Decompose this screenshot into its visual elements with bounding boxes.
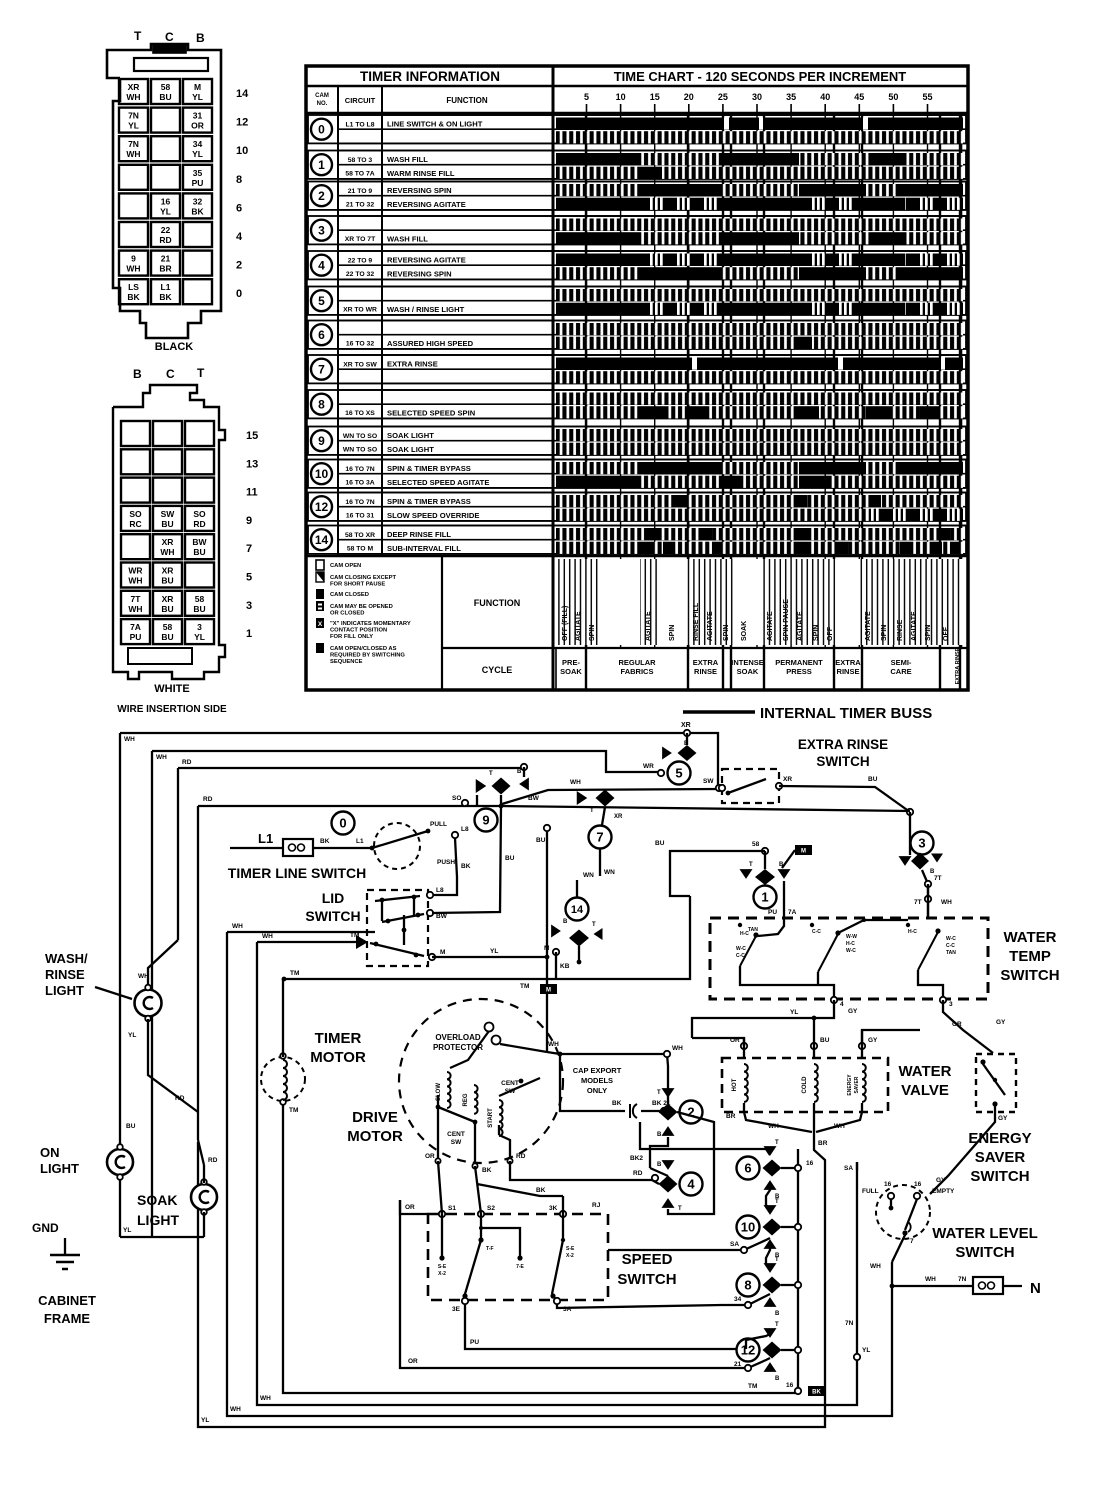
svg-text:BU: BU: [193, 604, 205, 614]
svg-text:AGITATE: AGITATE: [767, 611, 774, 641]
svg-text:12: 12: [236, 117, 248, 129]
svg-text:BW: BW: [528, 795, 540, 802]
svg-text:2: 2: [318, 189, 325, 203]
svg-text:PRESS: PRESS: [786, 667, 811, 676]
svg-text:12: 12: [741, 1343, 755, 1358]
svg-text:6: 6: [236, 202, 242, 214]
svg-text:3: 3: [918, 836, 925, 851]
svg-text:BLACK: BLACK: [155, 341, 194, 353]
svg-text:S1: S1: [448, 1205, 456, 1212]
svg-text:GY: GY: [936, 1177, 946, 1184]
svg-text:4: 4: [236, 231, 243, 243]
svg-text:16 TO 31: 16 TO 31: [346, 513, 374, 520]
svg-text:AGITATE: AGITATE: [911, 611, 918, 641]
svg-text:0: 0: [318, 123, 325, 137]
svg-text:BK: BK: [536, 1187, 546, 1194]
svg-text:16: 16: [884, 1181, 892, 1188]
svg-text:OFF (FILL): OFF (FILL): [562, 606, 569, 641]
svg-text:7A: 7A: [788, 909, 797, 916]
svg-text:8: 8: [318, 398, 325, 412]
svg-text:CONTACT POSITION: CONTACT POSITION: [330, 628, 387, 634]
svg-text:PERMANENT: PERMANENT: [775, 658, 823, 667]
svg-text:XR TO WR: XR TO WR: [343, 307, 377, 314]
svg-text:WN TO SO: WN TO SO: [343, 433, 377, 440]
svg-text:SOAK: SOAK: [560, 667, 582, 676]
svg-text:XR: XR: [783, 776, 792, 783]
svg-text:EXTRA: EXTRA: [693, 658, 719, 667]
svg-text:TIMER LINE SWITCH: TIMER LINE SWITCH: [228, 865, 366, 881]
svg-text:3K: 3K: [549, 1205, 558, 1212]
svg-text:CAM: CAM: [315, 93, 329, 99]
svg-text:WATER LEVEL: WATER LEVEL: [932, 1225, 1038, 1242]
svg-text:SWITCH: SWITCH: [955, 1244, 1014, 1261]
svg-text:WH: WH: [834, 1123, 845, 1130]
svg-text:XR TO 7T: XR TO 7T: [345, 236, 376, 243]
svg-text:21 TO 9: 21 TO 9: [348, 188, 373, 195]
svg-text:WH: WH: [126, 92, 140, 102]
svg-text:4: 4: [318, 259, 325, 273]
svg-text:KB: KB: [560, 963, 570, 970]
svg-text:SO: SO: [452, 795, 461, 802]
svg-text:CAM OPEN: CAM OPEN: [330, 563, 361, 569]
svg-text:AGITATE: AGITATE: [645, 611, 652, 641]
svg-text:3: 3: [949, 1001, 953, 1008]
svg-text:WASH FILL: WASH FILL: [387, 234, 428, 243]
svg-text:INTERNAL TIMER BUSS: INTERNAL TIMER BUSS: [760, 705, 932, 722]
svg-text:21: 21: [734, 1361, 742, 1368]
svg-text:WH: WH: [138, 973, 149, 980]
svg-text:SLOW SPEED OVERRIDE: SLOW SPEED OVERRIDE: [387, 511, 479, 520]
svg-text:WH: WH: [128, 604, 142, 614]
svg-text:T: T: [775, 1199, 779, 1205]
svg-text:34: 34: [734, 1296, 742, 1303]
svg-text:SPIN & TIMER BYPASS: SPIN & TIMER BYPASS: [387, 464, 471, 473]
svg-text:XR: XR: [128, 82, 140, 92]
svg-text:WH: WH: [232, 923, 243, 930]
svg-text:ENERGY: ENERGY: [847, 1074, 853, 1096]
svg-text:50: 50: [888, 92, 898, 102]
svg-text:RINSE: RINSE: [897, 619, 904, 641]
svg-text:58 TO 7A: 58 TO 7A: [345, 171, 374, 178]
svg-text:GY: GY: [998, 1115, 1008, 1122]
svg-text:CAM MAY BE OPENED: CAM MAY BE OPENED: [330, 604, 393, 610]
svg-text:T: T: [590, 808, 594, 814]
svg-text:WARM RINSE FILL: WARM RINSE FILL: [387, 169, 455, 178]
svg-text:TEMP: TEMP: [1009, 948, 1051, 965]
svg-text:MODELS: MODELS: [581, 1076, 613, 1085]
svg-text:5: 5: [675, 766, 682, 781]
svg-text:0: 0: [339, 816, 346, 831]
svg-text:ENERGY: ENERGY: [968, 1130, 1031, 1147]
svg-text:AGITATE: AGITATE: [797, 611, 804, 641]
svg-text:T: T: [775, 1140, 779, 1146]
svg-text:XR: XR: [162, 594, 174, 604]
svg-text:1: 1: [246, 628, 252, 640]
svg-text:TIME CHART - 120 SECONDS PER I: TIME CHART - 120 SECONDS PER INCREMENT: [614, 69, 907, 84]
svg-text:7N: 7N: [128, 139, 139, 149]
svg-text:8: 8: [744, 1278, 751, 1293]
svg-text:16 TO 3A: 16 TO 3A: [345, 480, 374, 487]
svg-text:XR: XR: [614, 814, 623, 820]
svg-text:SPEED: SPEED: [622, 1251, 673, 1268]
svg-text:LINE SWITCH & ON LIGHT: LINE SWITCH & ON LIGHT: [387, 120, 483, 129]
svg-text:21 TO 32: 21 TO 32: [346, 202, 374, 209]
svg-text:YL: YL: [201, 1417, 209, 1424]
svg-text:PU: PU: [130, 632, 142, 642]
svg-text:LID: LID: [322, 890, 345, 906]
svg-text:7A: 7A: [130, 622, 141, 632]
svg-text:WH: WH: [941, 899, 952, 906]
svg-text:DRIVE: DRIVE: [352, 1109, 398, 1126]
svg-text:SWITCH: SWITCH: [617, 1271, 676, 1288]
svg-text:OR: OR: [425, 1153, 435, 1160]
svg-text:L1: L1: [258, 831, 273, 846]
svg-text:4: 4: [687, 1177, 695, 1192]
svg-text:EXTRA RINSE: EXTRA RINSE: [955, 647, 961, 684]
svg-text:M: M: [194, 82, 201, 92]
svg-text:7: 7: [246, 543, 252, 555]
svg-text:PUSH: PUSH: [437, 859, 455, 866]
svg-text:WASH FILL: WASH FILL: [387, 155, 428, 164]
svg-text:0: 0: [236, 288, 242, 300]
svg-text:WATER: WATER: [1003, 929, 1056, 946]
svg-text:SUB-INTERVAL FILL: SUB-INTERVAL FILL: [387, 544, 461, 553]
svg-text:WIRE INSERTION SIDE: WIRE INSERTION SIDE: [117, 704, 227, 715]
svg-text:WHITE: WHITE: [154, 683, 189, 695]
svg-text:S2: S2: [487, 1205, 495, 1212]
svg-text:58 TO M: 58 TO M: [347, 546, 374, 553]
svg-text:BU: BU: [161, 632, 173, 642]
svg-text:BU: BU: [161, 604, 173, 614]
svg-text:SW: SW: [703, 778, 714, 785]
svg-text:FUNCTION: FUNCTION: [474, 598, 521, 608]
svg-text:X-2: X-2: [566, 1253, 574, 1259]
svg-text:7T: 7T: [934, 875, 942, 882]
svg-text:3E: 3E: [452, 1306, 461, 1313]
svg-text:OFF: OFF: [827, 626, 834, 641]
svg-text:XR: XR: [162, 537, 174, 547]
svg-text:OR: OR: [408, 1358, 418, 1365]
svg-text:WH: WH: [126, 149, 140, 159]
svg-text:BK: BK: [191, 206, 204, 216]
svg-text:6: 6: [744, 1161, 751, 1176]
svg-text:FOR FILL ONLY: FOR FILL ONLY: [330, 634, 373, 640]
svg-text:TM: TM: [520, 983, 529, 990]
svg-text:BU: BU: [193, 547, 205, 557]
svg-text:SPIN & TIMER BYPASS: SPIN & TIMER BYPASS: [387, 497, 471, 506]
svg-text:T: T: [489, 771, 493, 777]
svg-text:22 TO 9: 22 TO 9: [348, 258, 373, 265]
svg-text:WH: WH: [156, 754, 167, 761]
svg-text:GY: GY: [996, 1019, 1006, 1026]
svg-text:RD: RD: [516, 1153, 526, 1160]
svg-text:58 TO XR: 58 TO XR: [345, 532, 375, 539]
svg-text:EMPTY: EMPTY: [932, 1188, 955, 1195]
svg-text:B: B: [775, 1311, 780, 1317]
svg-text:AGITATE: AGITATE: [865, 611, 872, 641]
svg-text:CAM OPEN/CLOSED AS: CAM OPEN/CLOSED AS: [330, 646, 397, 652]
svg-text:SAVER: SAVER: [854, 1076, 860, 1093]
svg-text:PU: PU: [768, 909, 777, 916]
svg-text:C-C: C-C: [812, 929, 821, 935]
svg-text:16 TO 32: 16 TO 32: [346, 341, 374, 348]
svg-text:RD: RD: [193, 519, 205, 529]
svg-text:GY: GY: [848, 1008, 858, 1015]
svg-text:T: T: [775, 1257, 779, 1263]
svg-text:BU: BU: [655, 840, 665, 847]
svg-text:WH: WH: [768, 1123, 779, 1130]
svg-text:16: 16: [161, 196, 171, 206]
svg-text:35: 35: [786, 92, 796, 102]
svg-text:16: 16: [786, 1382, 794, 1389]
svg-text:RINSE: RINSE: [45, 967, 85, 982]
svg-text:W-C: W-C: [846, 948, 856, 954]
svg-text:30: 30: [752, 92, 762, 102]
svg-text:SA: SA: [844, 1165, 853, 1172]
svg-text:L8: L8: [436, 887, 444, 894]
svg-text:DEEP RINSE FILL: DEEP RINSE FILL: [387, 530, 451, 539]
svg-text:OR: OR: [405, 1204, 415, 1211]
svg-text:WH: WH: [230, 1406, 241, 1413]
svg-text:40: 40: [820, 92, 830, 102]
svg-text:RD: RD: [159, 235, 171, 245]
svg-text:WH: WH: [126, 264, 140, 274]
svg-text:SA: SA: [730, 1241, 739, 1248]
svg-text:MOTOR: MOTOR: [347, 1128, 403, 1145]
svg-text:W-C: W-C: [946, 936, 956, 942]
svg-text:RD: RD: [182, 759, 192, 766]
svg-text:C: C: [165, 30, 174, 44]
svg-text:COLD: COLD: [802, 1076, 808, 1094]
svg-text:WN: WN: [583, 872, 594, 879]
svg-text:SELECTED SPEED SPIN: SELECTED SPEED SPIN: [387, 408, 475, 417]
svg-text:10: 10: [616, 92, 626, 102]
svg-text:SOAK LIGHT: SOAK LIGHT: [387, 445, 434, 454]
svg-text:CAM CLOSED: CAM CLOSED: [330, 592, 369, 598]
svg-text:RD: RD: [633, 1170, 643, 1177]
svg-text:BW: BW: [192, 537, 207, 547]
svg-text:CAM CLOSING EXCEPT: CAM CLOSING EXCEPT: [330, 575, 396, 581]
svg-text:SPIN: SPIN: [669, 625, 676, 641]
svg-text:YL: YL: [862, 1347, 870, 1354]
svg-text:58 TO 3: 58 TO 3: [348, 157, 373, 164]
svg-text:SEMI-: SEMI-: [891, 658, 912, 667]
svg-text:BK: BK: [320, 838, 330, 845]
svg-text:CAP EXPORT: CAP EXPORT: [573, 1066, 622, 1075]
svg-text:S-E: S-E: [438, 1264, 447, 1270]
svg-text:FRAME: FRAME: [44, 1311, 91, 1326]
svg-text:SO: SO: [193, 509, 206, 519]
svg-text:34: 34: [193, 139, 203, 149]
svg-text:WH: WH: [124, 736, 135, 743]
svg-text:M: M: [801, 849, 806, 855]
svg-text:ON: ON: [40, 1145, 60, 1160]
svg-text:T: T: [592, 922, 596, 928]
svg-text:15: 15: [246, 430, 258, 442]
svg-text:REVERSING SPIN: REVERSING SPIN: [387, 269, 452, 278]
svg-text:SPIN: SPIN: [723, 625, 730, 641]
svg-text:4: 4: [840, 1001, 844, 1008]
svg-text:7T: 7T: [914, 899, 922, 906]
svg-text:16: 16: [914, 1181, 922, 1188]
svg-text:LIGHT: LIGHT: [137, 1212, 179, 1228]
svg-text:SAVER: SAVER: [975, 1149, 1026, 1166]
svg-text:7T: 7T: [131, 594, 142, 604]
svg-text:14: 14: [571, 904, 584, 916]
svg-text:XR: XR: [162, 566, 174, 576]
svg-text:L1: L1: [356, 838, 364, 845]
svg-text:B: B: [657, 1132, 662, 1138]
svg-text:GY: GY: [868, 1037, 878, 1044]
svg-text:5: 5: [318, 294, 325, 308]
svg-text:OR CLOSED: OR CLOSED: [330, 611, 364, 617]
svg-text:YL: YL: [192, 149, 203, 159]
svg-text:BK: BK: [612, 1100, 622, 1107]
svg-text:SPIN: SPIN: [589, 625, 596, 641]
svg-text:B: B: [133, 367, 142, 381]
svg-text:SOAK: SOAK: [741, 621, 748, 641]
svg-text:31: 31: [193, 111, 203, 121]
svg-text:YL: YL: [790, 1009, 798, 1016]
svg-text:OVERLOAD: OVERLOAD: [435, 1033, 481, 1042]
svg-text:SOAK: SOAK: [737, 667, 759, 676]
svg-text:RD: RD: [208, 1157, 218, 1164]
svg-text:SPIN PAUSE: SPIN PAUSE: [783, 599, 790, 641]
svg-text:WH: WH: [870, 1263, 881, 1270]
svg-text:OR: OR: [952, 1021, 962, 1028]
svg-text:3: 3: [246, 600, 252, 612]
svg-text:CYCLE: CYCLE: [482, 665, 513, 675]
svg-text:B: B: [196, 31, 205, 45]
svg-text:W-W: W-W: [846, 934, 857, 940]
svg-text:PU: PU: [470, 1339, 479, 1346]
svg-text:M: M: [440, 949, 445, 956]
svg-text:L1 TO L8: L1 TO L8: [346, 122, 375, 129]
svg-text:WH: WH: [260, 1395, 271, 1402]
svg-text:7N: 7N: [845, 1320, 854, 1327]
svg-text:55: 55: [922, 92, 932, 102]
svg-text:T: T: [749, 862, 753, 868]
svg-text:CABINET: CABINET: [38, 1293, 96, 1308]
svg-text:BR: BR: [159, 264, 171, 274]
svg-text:15: 15: [650, 92, 660, 102]
svg-text:BU: BU: [505, 855, 515, 862]
svg-text:START: START: [488, 1108, 494, 1128]
svg-text:BU: BU: [820, 1037, 830, 1044]
svg-text:YL: YL: [194, 632, 205, 642]
svg-text:1: 1: [761, 890, 768, 905]
svg-text:RD: RD: [203, 796, 213, 803]
svg-text:WASH/: WASH/: [45, 951, 88, 966]
svg-text:B: B: [563, 919, 568, 925]
svg-text:H-C: H-C: [846, 941, 855, 947]
svg-text:FUNCTION: FUNCTION: [446, 96, 488, 105]
svg-text:OFF: OFF: [943, 626, 950, 641]
svg-text:RJ: RJ: [592, 1202, 601, 1209]
svg-text:CENT: CENT: [447, 1131, 465, 1138]
svg-text:YL: YL: [128, 1032, 136, 1039]
svg-text:BU: BU: [161, 519, 173, 529]
svg-text:3: 3: [318, 224, 325, 238]
svg-text:58: 58: [752, 841, 760, 848]
svg-text:WN TO SO: WN TO SO: [343, 447, 377, 454]
svg-text:BK: BK: [461, 863, 471, 870]
svg-text:C-C: C-C: [946, 943, 955, 949]
svg-text:X-2: X-2: [438, 1271, 446, 1277]
svg-text:GND: GND: [32, 1221, 59, 1235]
svg-text:14: 14: [236, 88, 249, 100]
svg-text:58: 58: [163, 622, 173, 632]
svg-text:YL: YL: [192, 92, 203, 102]
svg-text:T: T: [678, 1206, 682, 1212]
svg-text:LS: LS: [128, 282, 139, 292]
svg-text:16: 16: [806, 1160, 814, 1167]
svg-text:WH: WH: [672, 1045, 683, 1052]
svg-text:T-F: T-F: [486, 1246, 494, 1252]
svg-text:B: B: [657, 1162, 662, 1168]
svg-text:58: 58: [161, 82, 171, 92]
svg-text:EXTRA: EXTRA: [835, 658, 861, 667]
svg-text:S-E: S-E: [566, 1246, 575, 1252]
svg-text:13: 13: [246, 458, 258, 470]
svg-text:WN: WN: [604, 869, 615, 876]
svg-text:L1: L1: [161, 282, 171, 292]
svg-text:ONLY: ONLY: [587, 1086, 607, 1095]
svg-text:WH: WH: [925, 1276, 936, 1283]
svg-text:8: 8: [236, 174, 242, 186]
svg-text:CIRCUIT: CIRCUIT: [345, 96, 376, 105]
svg-text:XR: XR: [681, 722, 691, 729]
svg-text:9: 9: [131, 254, 136, 264]
svg-text:BU: BU: [161, 576, 173, 586]
svg-text:7: 7: [596, 830, 603, 845]
svg-text:FULL: FULL: [862, 1188, 879, 1195]
svg-text:7N: 7N: [128, 111, 139, 121]
svg-text:WH: WH: [128, 576, 142, 586]
svg-text:RINSE: RINSE: [694, 667, 717, 676]
svg-text:SWITCH: SWITCH: [1000, 967, 1059, 984]
svg-text:WH: WH: [548, 1041, 559, 1048]
svg-text:EXTRA RINSE: EXTRA RINSE: [798, 737, 888, 752]
svg-text:TM: TM: [748, 1383, 757, 1390]
svg-text:SOAK: SOAK: [137, 1192, 177, 1208]
svg-text:BK: BK: [812, 1390, 821, 1396]
svg-text:SEQUENCE: SEQUENCE: [330, 659, 363, 665]
svg-text:SPIN: SPIN: [881, 625, 888, 641]
svg-text:C: C: [166, 367, 175, 381]
svg-text:INTENSE: INTENSE: [731, 658, 764, 667]
svg-text:T: T: [775, 1322, 779, 1328]
svg-text:16 TO 7N: 16 TO 7N: [345, 499, 374, 506]
svg-text:TIMER: TIMER: [315, 1030, 362, 1047]
svg-text:TIMER INFORMATION: TIMER INFORMATION: [360, 69, 500, 84]
svg-text:WATER: WATER: [898, 1063, 951, 1080]
svg-text:SPIN: SPIN: [925, 625, 932, 641]
svg-text:7-E: 7-E: [516, 1264, 524, 1270]
svg-text:N: N: [1030, 1280, 1041, 1297]
svg-text:OR: OR: [191, 121, 204, 131]
svg-text:VALVE: VALVE: [901, 1082, 949, 1099]
svg-text:WR: WR: [643, 763, 654, 770]
svg-text:RINSE: RINSE: [837, 667, 860, 676]
svg-text:7N: 7N: [958, 1276, 967, 1283]
svg-text:CARE: CARE: [890, 667, 911, 676]
svg-text:7: 7: [910, 1238, 914, 1245]
svg-text:10: 10: [741, 1220, 755, 1235]
svg-text:SO: SO: [129, 509, 142, 519]
svg-text:10: 10: [315, 467, 329, 481]
svg-text:BU: BU: [536, 837, 546, 844]
